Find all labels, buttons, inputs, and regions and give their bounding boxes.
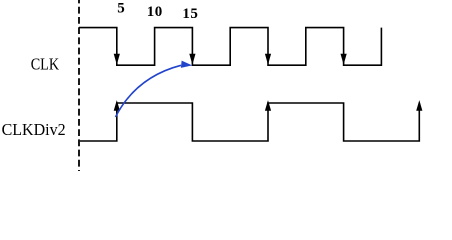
svg-text:CLKDiv2: CLKDiv2 (2, 120, 66, 139)
blue relation arrow (CLKDiv2 rise caused at CLK fall t=15) (116, 65, 182, 117)
blue arrowhead (181, 61, 192, 68)
CLKDiv2 rising-edge arrowhead 2 (265, 100, 271, 111)
CLK falling-edge arrowhead 4 (341, 54, 347, 65)
CLKDiv2 waveform (80, 103, 419, 141)
svg-text:5: 5 (117, 1, 125, 17)
CLK falling-edge arrowhead 3 (265, 54, 271, 65)
CLK waveform (79, 28, 381, 66)
svg-text:10: 10 (147, 4, 163, 20)
CLKDiv2 rising-edge arrowhead 1 (114, 100, 120, 111)
CLK falling-edge arrowhead 2 (189, 54, 195, 65)
time-zero dashed reference line (78, 0, 80, 171)
svg-text:15: 15 (182, 6, 198, 22)
svg-text:CLK: CLK (31, 54, 60, 73)
CLKDiv2 rising-edge arrowhead 3 (416, 100, 422, 111)
CLK falling-edge arrowhead 1 (114, 54, 120, 65)
